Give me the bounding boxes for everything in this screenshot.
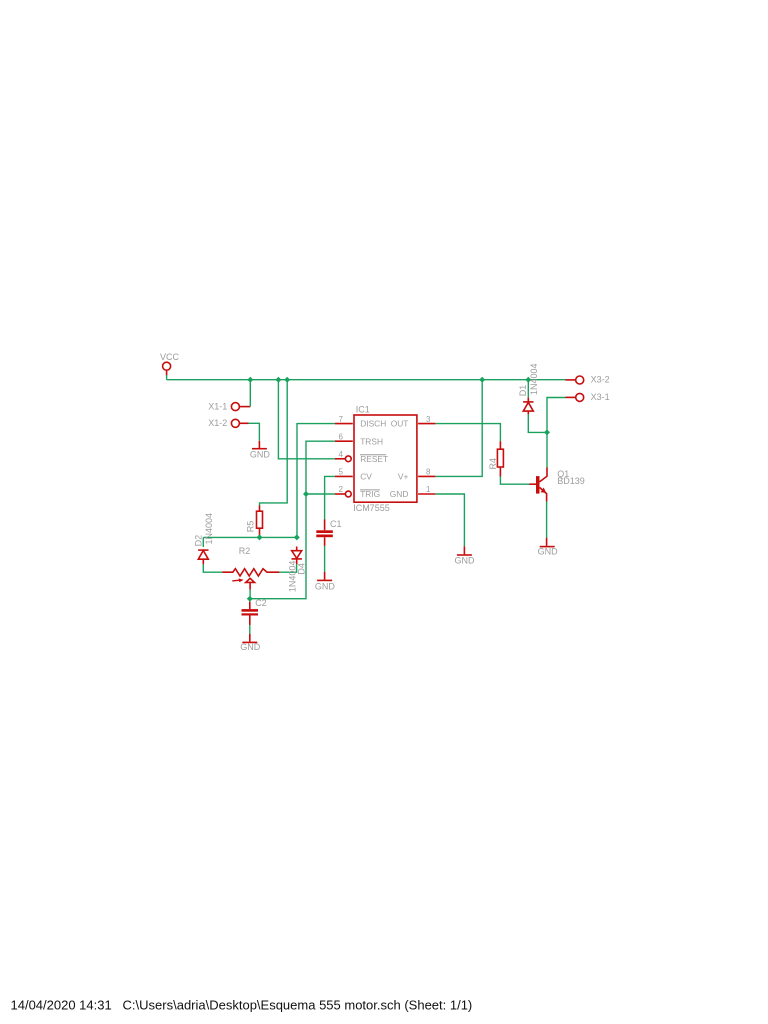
pin 5 CV stub: [335, 475, 353, 477]
wire TRIG to TRSH: [306, 493, 335, 495]
svg-text:4: 4: [339, 450, 344, 459]
pin 2 TRIG stub with bubble: [335, 491, 351, 497]
svg-text:8: 8: [426, 468, 431, 477]
wire TRSH net: [250, 441, 335, 599]
junction rail / D1: [525, 377, 531, 383]
svg-text:GND: GND: [538, 547, 559, 557]
junction wiper/TRSH/C2: [247, 596, 253, 602]
svg-text:TRIG: TRIG: [360, 489, 380, 499]
svg-text:1N4004: 1N4004: [529, 363, 539, 395]
wire D2 upper lead: [202, 537, 204, 547]
ground symbol GND (IC): [457, 546, 472, 555]
connector pad X3-1: [566, 393, 584, 401]
resistor R4: [497, 441, 503, 476]
junction rail / X1-1: [247, 377, 253, 383]
potentiometer R2: [222, 569, 279, 590]
svg-text:R4: R4: [488, 458, 498, 470]
junction row / R5: [257, 534, 263, 540]
wire D1 to collector node: [528, 414, 547, 432]
wire collector to node: [546, 432, 548, 467]
IC U1 ICM7555 body: [354, 415, 417, 502]
svg-text:2: 2: [339, 485, 344, 494]
transistor Q1 BD139: [529, 467, 547, 501]
diode D4: [292, 547, 302, 565]
pin 7 DISCH stub: [335, 423, 353, 425]
ground symbol GND (Q1): [540, 538, 555, 547]
wire power rail VCC: [167, 379, 566, 381]
diode D2: [198, 550, 208, 564]
svg-text:GND: GND: [250, 450, 271, 460]
wire RESET net: [278, 380, 335, 459]
wire emitter to GND: [546, 501, 548, 538]
junction row / DISCH / D4: [294, 534, 300, 540]
svg-text:R2: R2: [239, 546, 251, 556]
pin name TRIG with overline: [360, 489, 380, 499]
junction rail / V+: [479, 377, 485, 383]
svg-text:X3-1: X3-1: [591, 392, 610, 402]
ground symbol GND (C1): [317, 572, 332, 581]
wire CV to C1: [325, 476, 335, 519]
wire IC pin1 to GND: [435, 494, 464, 546]
svg-text:C2: C2: [255, 598, 267, 608]
svg-text:C1: C1: [330, 519, 342, 529]
power symbol VCC: [163, 362, 171, 375]
ground symbol GND (X1): [252, 441, 267, 449]
wire VCC to R5: [260, 380, 288, 506]
pin name RESET with overline: [360, 454, 388, 464]
pin 8 V+ stub: [418, 475, 435, 477]
pin 1 GND stub: [418, 493, 435, 495]
svg-text:BD139: BD139: [557, 476, 585, 486]
svg-text:X3-2: X3-2: [591, 374, 610, 384]
junction collector node: [544, 429, 550, 435]
wire X1-2 to GND: [248, 423, 259, 441]
svg-text:TRSH: TRSH: [360, 436, 383, 446]
wire C2 to GND: [249, 625, 251, 634]
resistor R5: [257, 506, 263, 538]
svg-text:GND: GND: [315, 581, 336, 591]
svg-text:GND: GND: [390, 489, 409, 499]
wire R2 to D4: [279, 564, 296, 572]
svg-text:ICM7555: ICM7555: [353, 503, 390, 513]
svg-text:1N4004: 1N4004: [204, 513, 214, 545]
diode D1: [523, 398, 533, 415]
svg-text:3: 3: [426, 415, 431, 424]
svg-text:14/04/2020 14:31 C:\Users\ad: 14/04/2020 14:31 C:\Users\adria\Desktop\…: [11, 998, 473, 1013]
svg-text:RESET: RESET: [360, 454, 388, 464]
svg-text:DISCH: DISCH: [360, 419, 386, 429]
wire VCC to power rail: [166, 375, 168, 380]
wire X1-1 to rail: [249, 380, 251, 407]
svg-text:VCC: VCC: [160, 352, 180, 362]
svg-text:6: 6: [339, 432, 344, 441]
ground symbol GND (C2): [242, 634, 257, 643]
wire D2 to R2: [203, 564, 222, 572]
svg-text:R5: R5: [246, 521, 256, 533]
pin 6 TRSH stub: [335, 440, 353, 442]
wire C1 to GND: [324, 546, 326, 572]
svg-text:GND: GND: [240, 642, 261, 652]
svg-text:GND: GND: [455, 556, 476, 566]
svg-text:X1-2: X1-2: [208, 418, 227, 428]
svg-text:7: 7: [339, 415, 344, 424]
svg-text:D1: D1: [518, 385, 528, 397]
svg-text:IC1: IC1: [356, 404, 370, 414]
svg-text:X1-1: X1-1: [208, 401, 227, 411]
wire X3-1 net: [547, 398, 566, 433]
pin 4 RESET stub with bubble: [335, 456, 351, 462]
connector pad X1-1: [231, 403, 250, 411]
pin 3 OUT stub: [418, 423, 435, 425]
capacitor C2: [242, 602, 259, 626]
svg-text:1: 1: [426, 485, 431, 494]
svg-text:D2: D2: [193, 535, 203, 547]
connector pad X3-2: [566, 376, 584, 384]
svg-text:CV: CV: [360, 472, 372, 482]
svg-text:5: 5: [339, 468, 344, 477]
svg-text:OUT: OUT: [391, 419, 409, 429]
junction rail / R5: [284, 377, 290, 383]
svg-text:D4: D4: [296, 563, 306, 575]
svg-text:1N4004: 1N4004: [288, 561, 298, 593]
connector pad X1-2: [231, 419, 248, 427]
junction TRIG/TRSH: [303, 491, 309, 497]
capacitor C1: [316, 519, 333, 546]
wire discharge row: [203, 536, 296, 538]
wire V+ net: [435, 380, 482, 477]
wire OUT to R4: [435, 424, 500, 442]
wire D1 to rail: [527, 380, 529, 398]
wire DISCH net: [297, 424, 335, 538]
wire R4 to Q1 base: [500, 476, 529, 484]
wire wiper to C2 node: [249, 589, 251, 598]
svg-text:V+: V+: [398, 472, 409, 482]
junction rail / RESET: [275, 377, 281, 383]
